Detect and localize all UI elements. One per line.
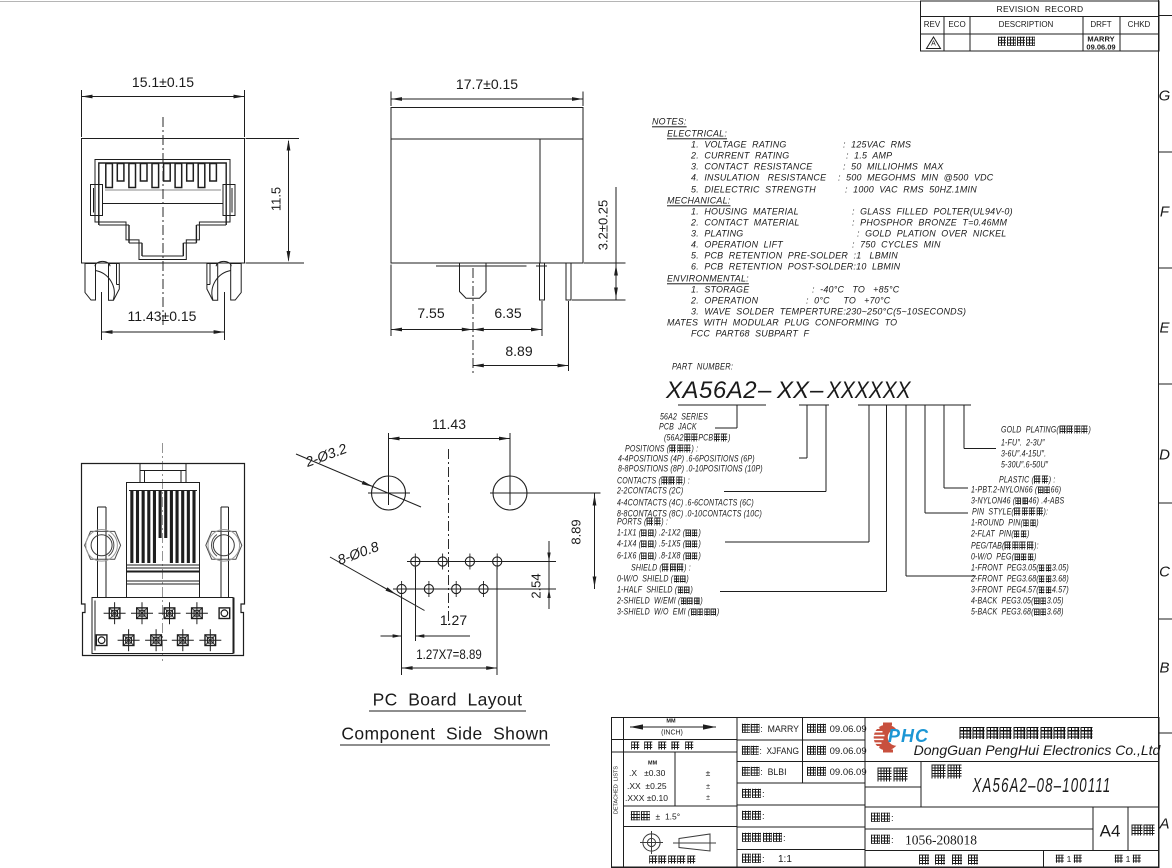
part number big text seg1 <box>666 379 757 403</box>
系列 <box>877 768 910 783</box>
bottom view: pin at (114.6,613.2) row1-1 <box>104 602 126 624</box>
zone letter D <box>1159 448 1170 463</box>
材料: <box>741 789 765 800</box>
图号: <box>870 813 894 824</box>
pn label pin style <box>972 507 1048 516</box>
front view: right mounting leg pair <box>231 264 242 301</box>
side view: front peg <box>460 263 487 298</box>
pn label ports <box>617 517 668 526</box>
角度 ± 1.5° <box>630 811 680 821</box>
dim text 8.89 side <box>505 344 532 358</box>
pn: leader positions <box>806 405 808 458</box>
side view: round pin 2 <box>566 263 571 300</box>
bottom view: vertical centerline <box>162 443 164 661</box>
title block: tol rows <box>612 739 738 741</box>
rev table title <box>997 4 1084 13</box>
pn: underline 56A2 segment <box>678 404 766 406</box>
pcb: centerline <box>448 449 450 625</box>
dim text 7.55 <box>417 306 444 320</box>
part number heading <box>672 361 733 370</box>
pcb: leader 8-Ø0.8 <box>330 557 425 611</box>
A4 <box>1100 822 1121 839</box>
PHC logo text <box>888 727 929 745</box>
pcb label 2-Ø3.2 <box>303 441 348 469</box>
一般公差栏 <box>630 741 698 750</box>
bottom view: right mounting hole boss <box>206 531 242 559</box>
side view: bottom lip line <box>436 265 527 267</box>
title block: date column divider <box>802 718 804 784</box>
zone letter C <box>1159 565 1170 580</box>
company english name <box>914 743 1161 757</box>
bottom view: pin at (169.5,613.2) row1-3 <box>159 602 181 624</box>
side view: peg centerline / ext line <box>472 268 474 375</box>
title block: third angle projection symbol <box>643 834 660 851</box>
side view: flange line <box>391 138 583 140</box>
bottom view: pin at (182.8,640.2) row2-3 <box>172 629 194 651</box>
pcb: hole 0.8 at (497.2,561.5) <box>493 557 502 566</box>
dim text 17.7 <box>456 77 518 91</box>
front view: vertical centerline <box>162 117 164 325</box>
bottom view: pin at (156.1,640.2) row2-2 <box>145 629 167 651</box>
zone letter A <box>1159 817 1169 832</box>
side view: outer body <box>391 108 583 264</box>
dim text 11.5 <box>270 187 283 211</box>
title block: mm/inch double arrow <box>630 726 716 728</box>
front view: right latch window <box>223 185 235 216</box>
名称 <box>931 765 964 780</box>
dim text 15.1 <box>132 75 194 89</box>
front view: plug stop shelf line <box>103 203 224 205</box>
1056-208018 <box>905 833 977 847</box>
pn XX <box>777 379 809 403</box>
pn label gold plating <box>1001 425 1091 434</box>
title block: detached-lists column <box>623 718 625 868</box>
pn: leader peg/tab <box>905 405 907 576</box>
pcb: mounting hole right 3.2mm <box>493 476 527 510</box>
pn label series <box>660 412 708 421</box>
bottom view: left EMI shield leg strip <box>96 507 98 598</box>
bottom view: pin at (210.3,640.2) row2-4 <box>199 629 221 651</box>
front view: left mounting leg pair <box>85 264 96 301</box>
pn label plastic <box>999 475 1055 484</box>
pcb caption 2 <box>341 725 548 743</box>
pcb: hole 0.8 at (415.3,561.5) <box>411 557 420 566</box>
pcb: hole 0.8 at (428.9,589) <box>424 584 433 593</box>
zone letter B <box>1159 661 1169 676</box>
版本 <box>1131 825 1156 838</box>
pn: leader plastic <box>943 405 945 488</box>
东莞市鹏辉电子有限公司 <box>959 725 1094 739</box>
pn: underline XX segment <box>799 404 829 406</box>
bottom view: contact comb block <box>126 483 199 565</box>
title block: right section lines <box>865 761 1159 763</box>
dim text 6.35 <box>494 306 521 320</box>
pn label positions <box>625 445 698 454</box>
zone letter F <box>1160 205 1169 220</box>
dimension 7.55 <box>390 265 392 337</box>
pcb: hole 0.8 at (469.9,561.5) <box>465 557 474 566</box>
pn: leader shield <box>886 405 888 592</box>
zone tick marks <box>1159 15 1172 17</box>
批准: BLBI <box>741 767 787 778</box>
pcb dim 11.43 <box>432 417 466 431</box>
dimension 11.5 (front view height) <box>246 138 300 140</box>
side view: round pin 1 <box>540 263 545 300</box>
审核: XJFANG <box>741 746 799 757</box>
bottom view: plug entry tab <box>140 464 186 483</box>
pcb caption 2 underline <box>340 744 550 746</box>
notes heading <box>652 116 687 125</box>
料号: <box>870 835 894 846</box>
pcb: dim 2.54 <box>548 541 550 609</box>
PHC company logo <box>874 723 905 753</box>
pcb: hole 0.8 at (442.6,561.5) <box>438 557 447 566</box>
pn: leader ports <box>868 405 870 542</box>
第1页 <box>1114 855 1142 864</box>
日期 <box>806 724 867 735</box>
bottom view: plated hole at (224.4,613.2) row1 end <box>219 608 230 619</box>
part name XA56A2-08-100111 <box>973 776 1112 796</box>
side view: rear wall line <box>539 139 541 263</box>
dimension 11.43±0.15 (leg spacing) <box>101 292 103 340</box>
pcb dim 1.27 <box>440 613 467 627</box>
pcb dim 8.89 <box>569 519 582 544</box>
bottom view: plated hole at (101.6,640.2) row2 start <box>96 635 107 646</box>
pn: leader contacts <box>825 405 827 492</box>
title block: middle col rows <box>737 739 865 741</box>
pcb dim 1.27X7 <box>416 647 481 661</box>
bottom view: pin header block <box>92 598 233 654</box>
bottom view: pin at (196.9,613.2) row1-4 <box>186 602 208 624</box>
zone letter G <box>1159 89 1171 104</box>
dimension 15.1±0.15 (front view width) <box>81 90 83 137</box>
第三角视图 <box>648 856 696 865</box>
front view: contact tips line <box>105 189 221 191</box>
pn label peg/tab <box>971 541 1039 550</box>
dim text 11.43 <box>128 309 197 323</box>
bottom view: pin at (142,613.2) row1-2 <box>131 602 153 624</box>
表面处理: <box>741 833 786 844</box>
rev table: revision triangle A <box>927 37 941 49</box>
pcb caption 1 underline <box>369 710 526 712</box>
设计: MARRY <box>741 724 799 735</box>
pcb: leader 2-Ø3.2 <box>296 454 421 507</box>
bottom view: right EMI shield leg strip <box>220 507 222 598</box>
front view: latch slot bottom edge <box>142 255 183 257</box>
pcb: dim 11.43 <box>389 438 511 440</box>
dimension 17.7±0.15 (side view width) <box>390 92 392 107</box>
pn label shield <box>631 563 691 572</box>
pn: leader series <box>736 405 738 428</box>
pcb: 8 small holes 0.8mm row lines <box>407 561 556 563</box>
front view: left latch window <box>91 185 103 216</box>
pn: leader pin style <box>924 405 926 513</box>
bottom view: outer body outline <box>82 464 245 656</box>
bottom view: left mounting hole boss <box>85 531 121 559</box>
不按比例 <box>918 855 984 866</box>
bottom view: pin at (128.6,640.2) row2-1 <box>118 629 140 651</box>
rev A in triangle <box>931 41 936 48</box>
rev table: header line <box>921 16 1160 18</box>
pcb: hole 0.8 at (401.6,589) <box>397 584 406 593</box>
pcb: dim 1.27 <box>401 595 403 675</box>
rev description 原始版本 <box>997 37 1035 48</box>
pcb: mounting hole left 3.2mm <box>372 476 406 510</box>
pcb dim 2.54 <box>529 573 542 598</box>
比例: <box>741 854 765 865</box>
front view: contact comb teeth <box>106 164 113 188</box>
front view: outer body <box>82 139 245 264</box>
detached lists label <box>615 766 621 814</box>
top edge scan line <box>0 1 920 3</box>
pcb: dim 8.89 vertical <box>594 493 596 589</box>
page right border <box>1158 0 1160 868</box>
pcb: dim 1.27X7=8.89 <box>496 567 498 675</box>
front view: opening inner wall lines <box>99 163 226 256</box>
title block: outer frame <box>612 718 1160 868</box>
pcb: hole 0.8 at (483.5,589) <box>479 584 488 593</box>
dimension 3.2±0.25 (pin length) <box>584 262 626 264</box>
bottom view: contact base lines <box>126 567 199 569</box>
pn: underline XXXXXX segment <box>858 404 971 406</box>
pn label contacts <box>617 477 690 486</box>
数量: <box>741 811 765 822</box>
zone letter E <box>1159 321 1169 336</box>
pn XXXXXX <box>827 379 911 403</box>
dim text 3.2 <box>597 200 610 251</box>
dimension 6.35 <box>541 301 543 336</box>
pn dash2 <box>810 379 823 403</box>
pcb label 8-Ø0.8 <box>335 539 380 567</box>
dimension 8.89 (side view) <box>568 301 570 371</box>
pn dash1 <box>758 379 771 403</box>
pcb: hole 0.8 at (456.2,589) <box>452 584 461 593</box>
pcb caption 1 <box>373 691 523 709</box>
共1页 <box>1055 855 1083 864</box>
front view: jack opening outline <box>95 160 230 260</box>
pn: leader gold plating <box>963 405 965 449</box>
